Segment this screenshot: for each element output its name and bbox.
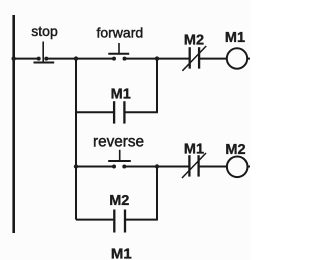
svg-text:stop: stop bbox=[31, 23, 58, 39]
svg-text:M2: M2 bbox=[225, 142, 245, 158]
svg-text:M1: M1 bbox=[184, 141, 204, 157]
svg-text:M1: M1 bbox=[111, 245, 132, 260]
svg-text:M2: M2 bbox=[109, 193, 129, 209]
svg-text:reverse: reverse bbox=[93, 134, 144, 151]
svg-text:M1: M1 bbox=[225, 30, 245, 46]
svg-text:forward: forward bbox=[96, 24, 143, 40]
svg-text:M1: M1 bbox=[111, 86, 131, 102]
svg-text:M2: M2 bbox=[184, 33, 204, 49]
